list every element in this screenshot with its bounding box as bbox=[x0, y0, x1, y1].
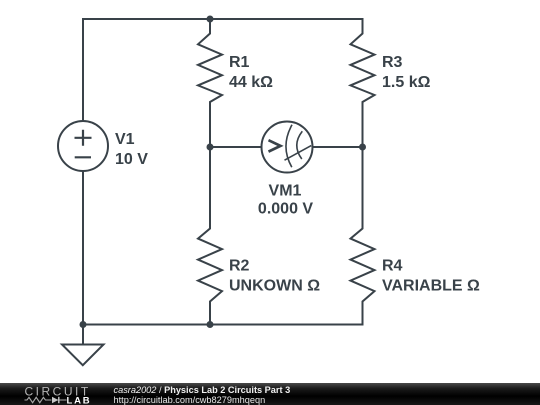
wire left rail lower (V1 bottom lead) bbox=[82, 171, 84, 325]
resistor R4 bbox=[351, 147, 481, 325]
svg-text:VM1: VM1 bbox=[269, 183, 302, 200]
wire top rail bbox=[83, 18, 363, 20]
svg-text:casra2002 / Physics Lab 2 Circ: casra2002 / Physics Lab 2 Circuits Part … bbox=[114, 385, 291, 395]
svg-text:44 kΩ: 44 kΩ bbox=[229, 74, 273, 91]
svg-text:0.000 V: 0.000 V bbox=[258, 201, 313, 218]
wire middle left (node to VM1) bbox=[210, 146, 262, 148]
node junction bottom left (V1/ground) bbox=[80, 321, 87, 328]
resistor R2 bbox=[198, 147, 320, 325]
wire ground stub bbox=[82, 325, 84, 345]
svg-text:VARIABLE Ω: VARIABLE Ω bbox=[382, 278, 480, 295]
svg-text:R2: R2 bbox=[229, 258, 250, 275]
svg-text:V1: V1 bbox=[115, 131, 135, 148]
ground bbox=[62, 345, 104, 366]
voltmeter VM1 bbox=[258, 122, 313, 218]
svg-text:1.5 kΩ: 1.5 kΩ bbox=[382, 74, 431, 91]
voltage source V1 bbox=[58, 121, 148, 171]
svg-text:10 V: 10 V bbox=[115, 151, 148, 168]
wire bottom rail bbox=[83, 324, 363, 326]
svg-text:UNKOWN Ω: UNKOWN Ω bbox=[229, 278, 320, 295]
node junction bottom middle (R2 bottom) bbox=[207, 321, 214, 328]
svg-text:R1: R1 bbox=[229, 54, 250, 71]
node junction middle right (R3/R4/VM1) bbox=[359, 144, 366, 151]
svg-text:LAB: LAB bbox=[67, 396, 92, 405]
node junction top (R1 top) bbox=[207, 16, 214, 23]
svg-text:R4: R4 bbox=[382, 258, 403, 275]
svg-text:http://circuitlab.com/cwb8279m: http://circuitlab.com/cwb8279mhqeqn bbox=[114, 395, 266, 405]
wire left rail upper (V1 top lead) bbox=[82, 19, 84, 121]
wire middle right (VM1 to node) bbox=[313, 146, 363, 148]
resistor R1 bbox=[198, 19, 273, 147]
node junction middle left (R1/R2/VM1) bbox=[207, 144, 214, 151]
resistor R3 bbox=[351, 19, 431, 147]
svg-text:R3: R3 bbox=[382, 54, 403, 71]
footer logo resistor-diode glyph bbox=[25, 397, 67, 402]
